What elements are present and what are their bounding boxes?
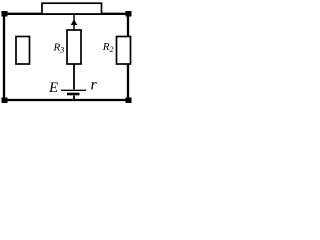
svg-text:r: r — [91, 77, 98, 94]
resistor left box — [16, 37, 30, 65]
battery short plate — [67, 93, 80, 96]
wire outer loop — [4, 14, 128, 100]
slider arrow — [71, 15, 78, 31]
svg-text:R3: R3 — [53, 42, 65, 55]
resistor R3 — [67, 30, 81, 64]
resistor R2 (right box) — [117, 37, 131, 65]
battery long plate — [61, 89, 86, 91]
svg-text:R2: R2 — [102, 41, 114, 54]
wire middle branch — [73, 64, 75, 100]
svg-text:E: E — [48, 80, 58, 96]
rheostat (top box) — [42, 3, 102, 14]
wire corner joints — [2, 11, 132, 103]
